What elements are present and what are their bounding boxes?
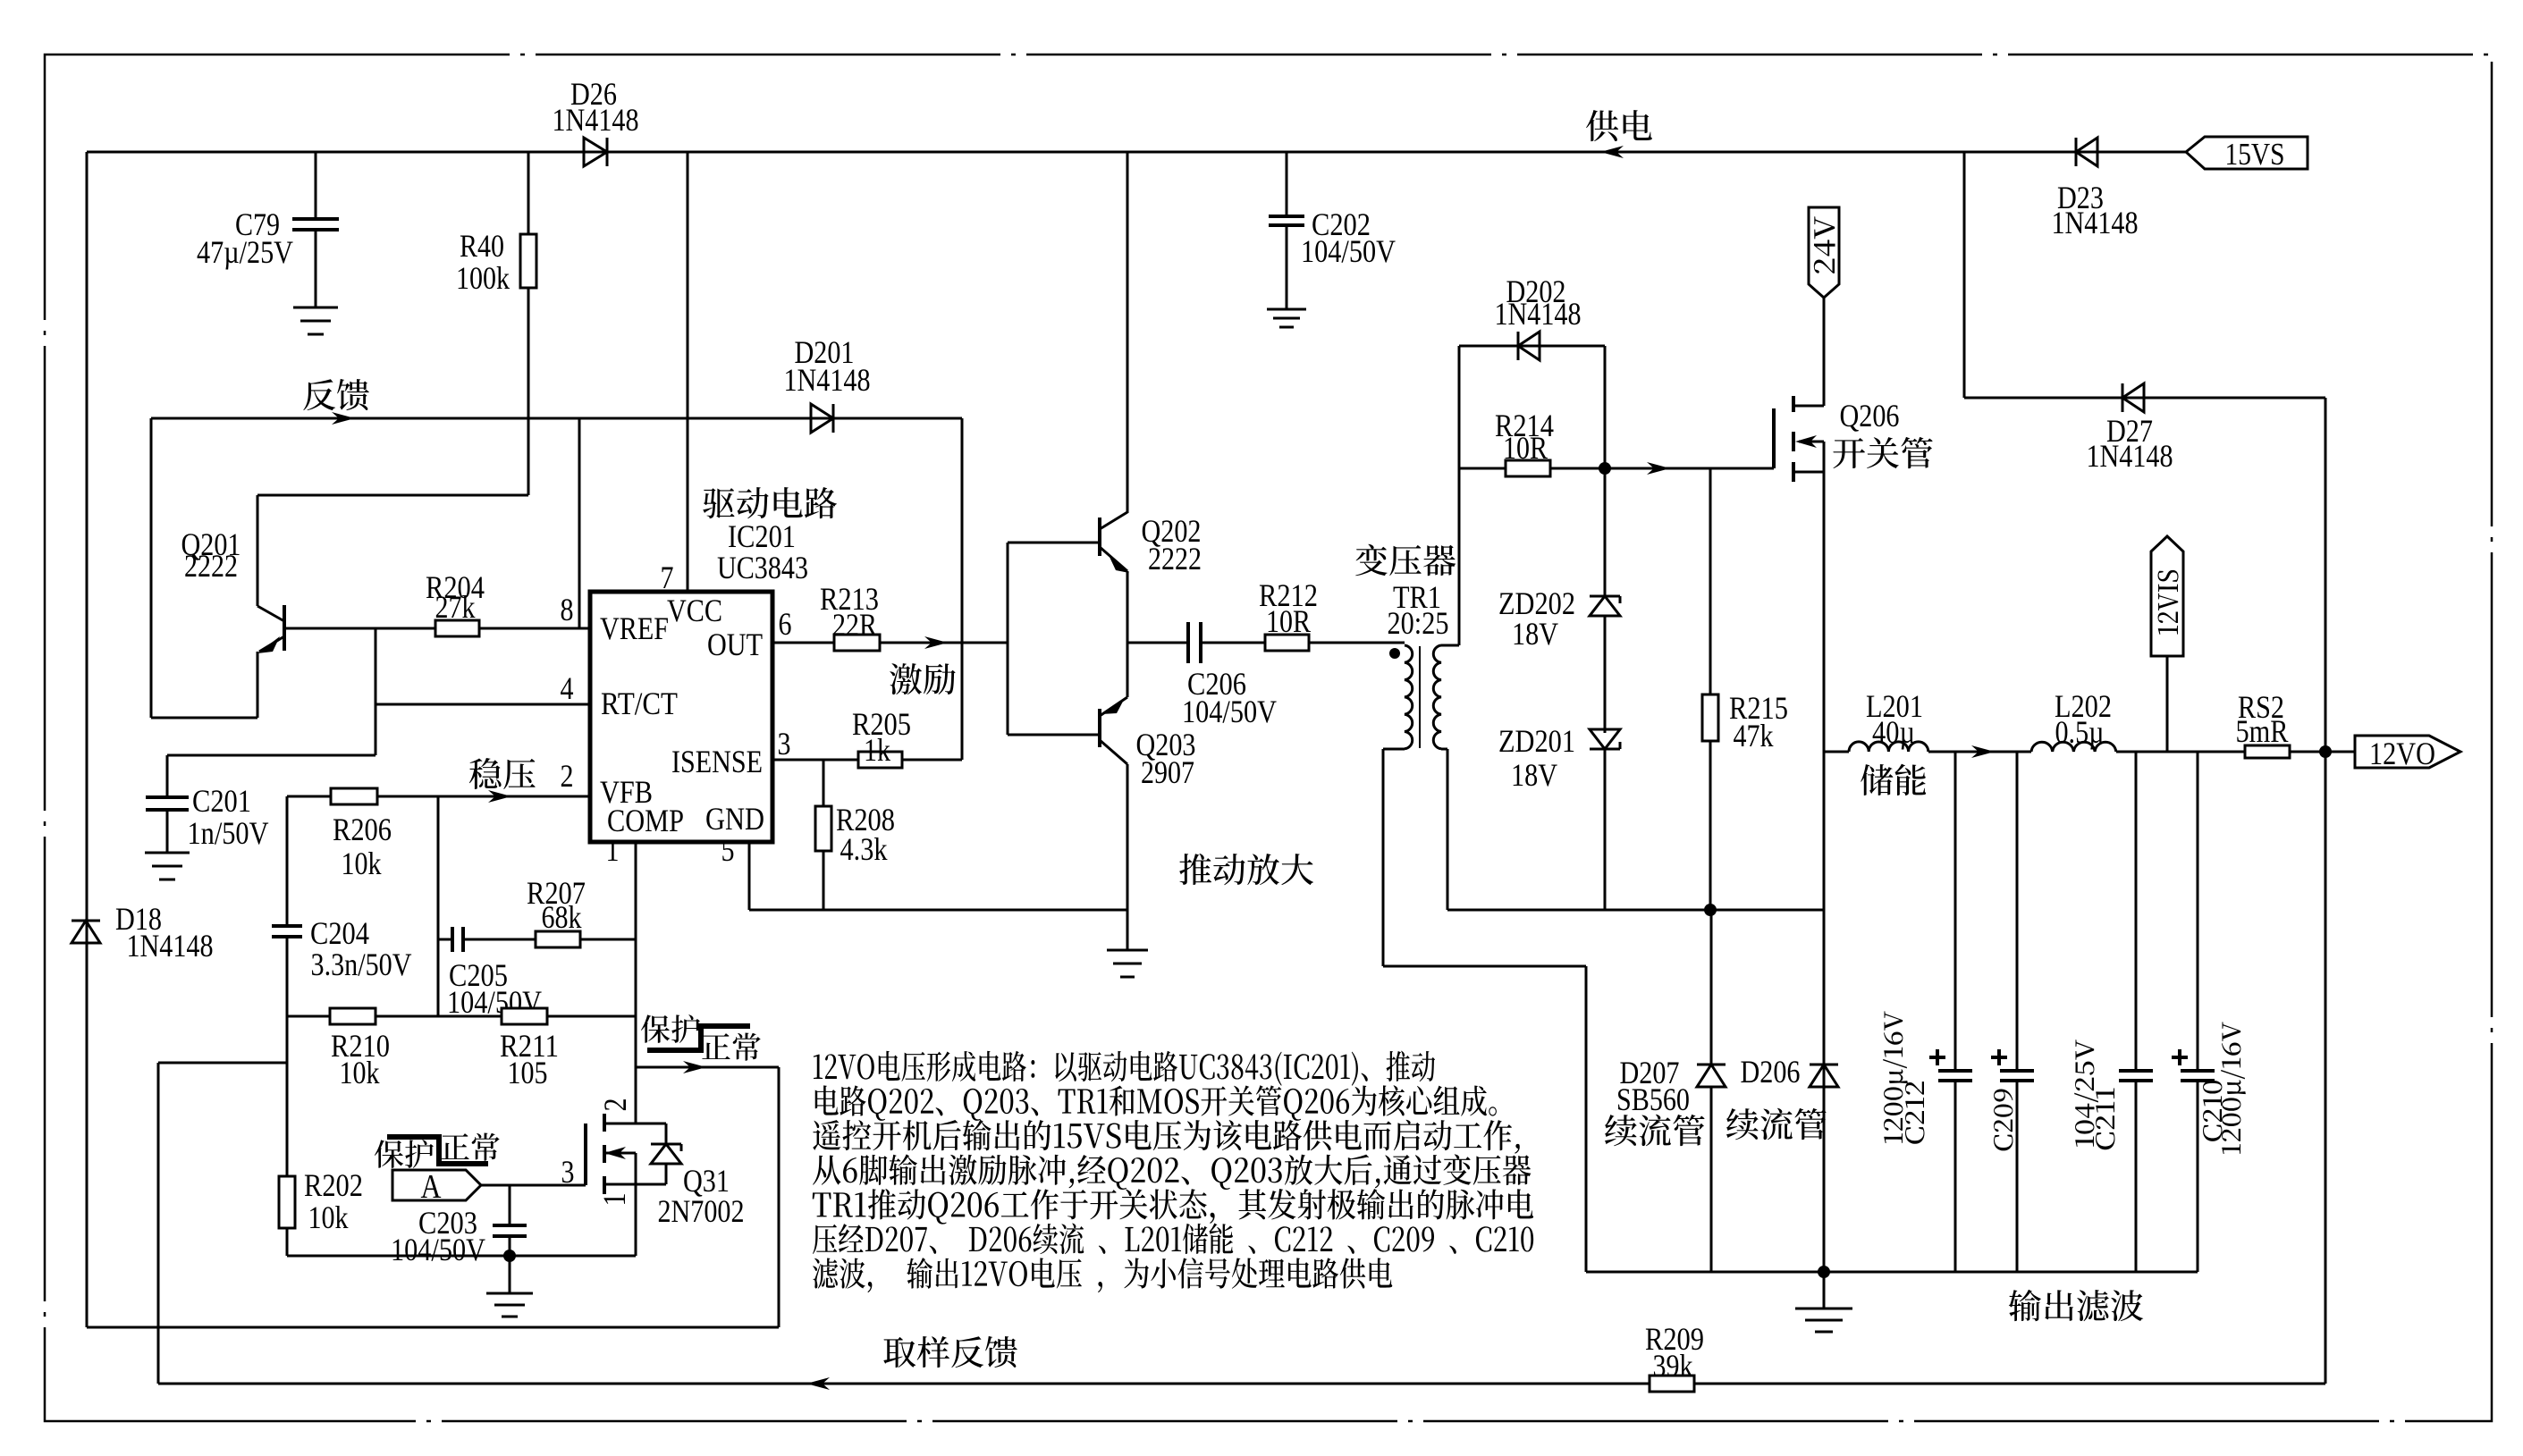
svg-text:2N7002: 2N7002: [658, 1193, 745, 1229]
svg-text:RT/CT: RT/CT: [601, 686, 678, 721]
svg-text:5mR: 5mR: [2236, 713, 2289, 749]
svg-text:1N4148: 1N4148: [2087, 438, 2173, 474]
svg-text:OUT: OUT: [707, 627, 763, 662]
transistor Q202: [1008, 542, 1100, 544]
svg-text:A: A: [421, 1168, 442, 1206]
transistor Q203: [1008, 734, 1100, 736]
svg-text:104/50V: 104/50V: [391, 1232, 485, 1267]
svg-text:GND: GND: [705, 801, 764, 837]
junction C203 ground: [503, 1250, 516, 1262]
wire secondary top: [1441, 644, 1459, 647]
wire RT/CT pin 4: [375, 703, 590, 706]
ground for C201: [145, 852, 190, 854]
diode D206: [1823, 910, 1826, 1065]
phase dot: [1389, 648, 1400, 659]
svg-text:1N4148: 1N4148: [2052, 205, 2139, 240]
capacitor C201: [146, 795, 189, 799]
svg-text:105: 105: [508, 1055, 548, 1090]
ground symbol output: [1823, 1272, 1826, 1309]
resistor R206: [331, 788, 377, 804]
svg-text:104/50V: 104/50V: [1182, 694, 1277, 729]
svg-text:104/50V: 104/50V: [1301, 233, 1396, 269]
svg-text:10k: 10k: [342, 846, 382, 881]
svg-text:10R: 10R: [1503, 430, 1548, 466]
wire feedback left vertical: [150, 418, 153, 718]
svg-text:VREF: VREF: [600, 610, 669, 646]
svg-text:R202: R202: [304, 1167, 363, 1203]
svg-text:5: 5: [721, 832, 735, 868]
label 供电 and arrow: [1600, 146, 1624, 158]
wire ground row left: [749, 909, 1127, 912]
resistor R215: [1709, 468, 1712, 694]
logic level symbol 保护正常 COMP: [641, 1014, 700, 1043]
svg-text:10R: 10R: [1266, 603, 1311, 639]
svg-text:39k: 39k: [1653, 1348, 1693, 1384]
label 推动放大: [1179, 854, 1313, 885]
svg-text:15VS: 15VS: [2225, 137, 2285, 172]
pin 7 VCC wire: [687, 152, 689, 592]
svg-text:4: 4: [561, 670, 574, 706]
resistor R211: [502, 1008, 547, 1024]
svg-text:10k: 10k: [340, 1055, 380, 1090]
svg-text:ISENSE: ISENSE: [671, 744, 763, 779]
svg-text:2: 2: [597, 1098, 633, 1112]
wire VFB left vertical: [286, 796, 289, 926]
svg-text:4.3k: 4.3k: [840, 831, 888, 867]
svg-text:40µ: 40µ: [1872, 714, 1915, 750]
svg-text:R206: R206: [333, 812, 392, 847]
capacitor C203: [509, 1185, 511, 1225]
zener ZD201: [1604, 616, 1607, 733]
ground under C203: [509, 1256, 511, 1293]
capacitor C209: [2016, 752, 2019, 1071]
secondary coil: [1433, 645, 1441, 749]
resistor R210: [330, 1008, 375, 1024]
wire source bottom row: [287, 1255, 636, 1258]
transistor Q201: [257, 495, 259, 606]
svg-text:6: 6: [779, 606, 792, 642]
flag A: [392, 1170, 481, 1200]
diode D18: [72, 920, 100, 922]
capacitor C211: [2135, 752, 2138, 1071]
svg-text:1N4148: 1N4148: [1495, 296, 1582, 332]
ground under Q203: [1107, 949, 1148, 952]
capacitor C206: [1127, 642, 1188, 644]
wire secondary bottom: [1441, 748, 1447, 751]
svg-text:C204: C204: [310, 915, 369, 951]
wire protection arrow: [636, 1066, 779, 1069]
wire COMP pin 1: [635, 842, 637, 1124]
label 取样反馈: [883, 1336, 1017, 1368]
wire primary bottom: [1383, 748, 1405, 751]
label 激励: [890, 663, 956, 694]
svg-text:2907: 2907: [1141, 754, 1194, 790]
svg-text:7: 7: [661, 560, 674, 595]
wire Q31 source down: [635, 1184, 637, 1256]
svg-text:47k: 47k: [1734, 718, 1774, 753]
svg-text:12VO: 12VO: [2369, 736, 2435, 771]
resistor R209: [1650, 1376, 1694, 1392]
flag 24V: [1809, 207, 1839, 298]
svg-text:Q206: Q206: [1840, 398, 1900, 433]
diode D27: [2122, 383, 2144, 412]
transistor Q206 MOSFET: [1772, 408, 1776, 468]
wire ISENSE pin 3: [772, 759, 858, 762]
resistor R214: [1459, 467, 1506, 470]
svg-text:1: 1: [596, 1193, 632, 1207]
logic level symbol 保护正常 A: [375, 1140, 434, 1168]
diode D23: [2076, 138, 2097, 166]
inductor L202: [2031, 742, 2116, 752]
svg-text:8: 8: [561, 592, 574, 627]
svg-text:1n/50V: 1n/50V: [188, 815, 269, 851]
diode D202: [1459, 345, 1605, 348]
svg-text:47µ/25V: 47µ/25V: [197, 234, 293, 270]
wire feedback 反馈: [151, 417, 962, 420]
diode D201: [811, 404, 833, 433]
wire OUT pin 6: [772, 642, 834, 644]
wire R210/R211 row: [287, 1015, 636, 1018]
svg-text:2222: 2222: [184, 548, 238, 584]
svg-text:ZD201: ZD201: [1498, 723, 1575, 759]
svg-text:VCC: VCC: [667, 593, 722, 628]
svg-text:IC201: IC201: [728, 518, 796, 554]
svg-text:R40: R40: [460, 228, 504, 264]
junction gate node: [1599, 462, 1611, 475]
flag 15VS: [2186, 137, 2308, 169]
svg-text:D206: D206: [1741, 1054, 1801, 1090]
capacitor C79: [315, 152, 317, 219]
resistor R212: [1265, 635, 1309, 651]
capacitor C212: [1954, 752, 1957, 1071]
svg-text:3: 3: [778, 726, 791, 762]
description text: [814, 1051, 1435, 1086]
flag 12VO: [2355, 736, 2460, 768]
flag 12VIS: [2166, 656, 2169, 752]
wire bottom return: [87, 1326, 779, 1329]
wire VFB pin 2 稳压: [287, 795, 590, 798]
svg-text:68k: 68k: [542, 899, 582, 935]
ground for C79: [293, 307, 338, 309]
resistor R207: [536, 931, 580, 947]
IC U-IC201 UC3843 box: [590, 592, 772, 842]
wire top supply rail: [87, 151, 2186, 154]
capacitor C204: [272, 924, 302, 928]
resistor R40: [527, 152, 530, 234]
svg-text:1N4148: 1N4148: [553, 102, 639, 138]
wire feedback to VREF: [578, 418, 581, 628]
wire collector top: [257, 494, 528, 497]
svg-text:20:25: 20:25: [1388, 605, 1449, 641]
wire sampling feedback 取样反馈: [158, 1383, 2325, 1385]
wire emitter bottom: [151, 717, 257, 720]
transformer TR1: [1355, 544, 1456, 577]
wire left outer vertical: [86, 152, 89, 1327]
svg-text:1N4148: 1N4148: [784, 362, 871, 398]
svg-text:18V: 18V: [1511, 757, 1557, 793]
svg-text:2: 2: [561, 758, 574, 794]
svg-text:18V: 18V: [1512, 616, 1558, 652]
resistor R208: [823, 760, 825, 806]
svg-text:1: 1: [606, 832, 620, 868]
wire Q206 source column: [1823, 472, 1826, 1272]
ground for C202: [1267, 308, 1306, 311]
svg-text:C201: C201: [192, 783, 251, 819]
transformer core: [1419, 646, 1421, 748]
transistor Q31 MOSFET: [481, 1184, 586, 1187]
capacitor C210: [2197, 752, 2199, 1071]
inductor L201: [1824, 751, 1849, 753]
svg-text:UC3843: UC3843: [717, 550, 808, 585]
svg-text:2222: 2222: [1148, 541, 1202, 577]
resistor R205: [858, 752, 902, 768]
resistor R202: [286, 1016, 289, 1176]
wire base rail: [1007, 543, 1009, 735]
capacitor C202: [1286, 152, 1288, 216]
junction source node: [1704, 904, 1717, 916]
junction 12VO node: [2319, 745, 2332, 758]
diode D207: [1710, 910, 1713, 1065]
svg-text:0.5µ: 0.5µ: [2055, 714, 2105, 750]
wire C205/R207 row: [437, 796, 440, 1016]
svg-text:100k: 100k: [456, 260, 510, 296]
svg-text:SB560: SB560: [1616, 1081, 1690, 1117]
ground bus: [1586, 1271, 2198, 1274]
svg-text:3.3n/50V: 3.3n/50V: [311, 947, 412, 982]
resistor R204: [435, 620, 479, 636]
zener ZD202: [1604, 468, 1607, 596]
svg-text:1N4148: 1N4148: [127, 928, 214, 964]
wire GND pin 5: [748, 842, 751, 910]
wire 12VO right vertical: [2325, 398, 2327, 1384]
label 输出滤波: [2009, 1290, 2143, 1322]
diode D26: [584, 138, 607, 166]
body diode Q31: [665, 1124, 668, 1144]
capacitor C205: [451, 927, 454, 952]
resistor RS2: [2245, 745, 2290, 758]
svg-text:27k: 27k: [435, 589, 476, 625]
svg-text:10k: 10k: [308, 1199, 349, 1235]
svg-text:22R: 22R: [832, 607, 877, 643]
resistor R213: [834, 635, 880, 651]
svg-text:1k: 1k: [864, 732, 890, 768]
wire to D27: [1963, 152, 1966, 398]
svg-text:3: 3: [561, 1154, 575, 1190]
label 反馈: [303, 379, 369, 410]
wire D201 branch vertical: [961, 418, 964, 760]
